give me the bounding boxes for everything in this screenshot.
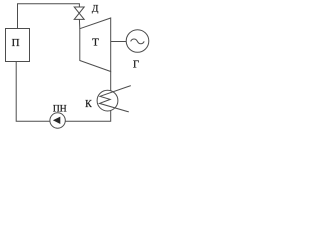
svg-text:Д: Д bbox=[92, 5, 99, 15]
svg-text:ПН: ПН bbox=[53, 104, 67, 114]
svg-text:П: П bbox=[12, 37, 20, 49]
svg-text:Т: Т bbox=[92, 37, 99, 49]
svg-text:К: К bbox=[85, 99, 92, 110]
svg-text:Г: Г bbox=[133, 58, 139, 70]
